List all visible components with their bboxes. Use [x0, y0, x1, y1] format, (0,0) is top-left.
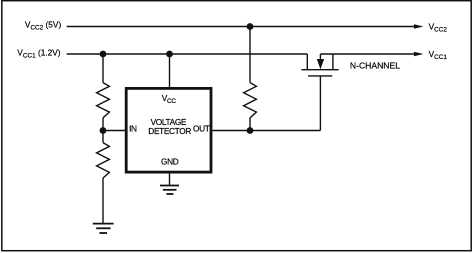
svg-text:DETECTOR: DETECTOR: [148, 126, 191, 136]
wire VCC1 rail left segment: [67, 53, 308, 55]
wire OUT: [212, 130, 320, 132]
arrowhead VCC1: [414, 52, 424, 57]
resistor R2: [97, 143, 110, 178]
transistor Q1 gate bar: [308, 75, 332, 77]
resistor R1: [97, 83, 110, 118]
wire IN: [103, 130, 126, 132]
svg-text:OUT: OUT: [193, 124, 210, 134]
op-amp U1 voltage detector box: [126, 88, 211, 172]
svg-text:VCC1: VCC1: [429, 49, 448, 61]
arrowhead VCC2: [414, 24, 424, 29]
svg-text:GND: GND: [161, 157, 179, 167]
wire VCC1 rail right segment: [321, 53, 416, 55]
transistor Q1 drain stub: [306, 54, 308, 70]
transistor Q1 source stub: [332, 54, 334, 70]
wire VCC2 to R3: [249, 27, 251, 83]
svg-text:VCC2 (5V): VCC2 (5V): [25, 19, 62, 31]
wire gate lead: [319, 76, 321, 131]
junction dot on VCC2 rail: [247, 23, 254, 30]
wire R3 to OUT node: [249, 118, 251, 131]
wire R2 to ground: [102, 178, 104, 224]
svg-text:VCC2: VCC2: [429, 21, 448, 33]
resistor R3: [244, 83, 257, 118]
ground (divider): [93, 224, 114, 233]
node IN junction dot: [100, 127, 107, 134]
wire IN node to R2: [102, 131, 104, 143]
wire VCC pin: [169, 54, 171, 88]
svg-text:VCC1 (1.2V): VCC1 (1.2V): [17, 48, 60, 60]
ground (detector): [160, 186, 179, 195]
junction dot VCC1 / VCC pin: [166, 51, 173, 58]
svg-text:N-CHANNEL: N-CHANNEL: [350, 60, 400, 70]
svg-text:VCC: VCC: [162, 93, 177, 105]
wire divider top lead: [102, 54, 104, 83]
wire GND pin: [169, 173, 171, 186]
wire R1 to IN node: [102, 118, 104, 131]
transistor Q1 N-channel arrow: [319, 54, 321, 60]
junction dot VCC1 / divider: [100, 51, 107, 58]
wire VCC2 rail: [67, 26, 416, 28]
junction dot OUT node: [247, 127, 254, 134]
svg-text:IN: IN: [129, 124, 137, 134]
transistor Q1 channel bar: [301, 69, 338, 71]
